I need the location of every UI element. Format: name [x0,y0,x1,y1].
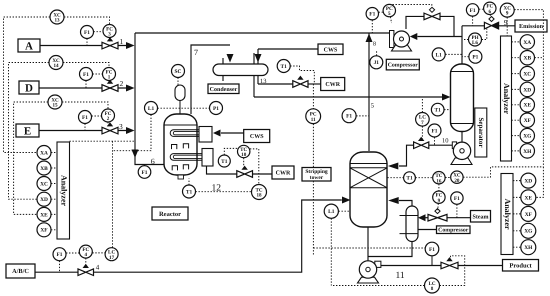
emission box [515,20,547,32]
signal LI PI reactor [158,107,210,109]
svg-text:6: 6 [489,9,492,15]
wire stripper bottoms [367,227,369,261]
separator vessel [451,64,474,132]
signal FI6 tap [144,165,146,166]
signal TI TC18 [196,191,252,193]
svg-text:1: 1 [108,75,111,81]
indicator PI reactor [210,102,223,115]
signal LC8 loop [440,256,465,286]
svg-text:CWR: CWR [325,82,340,88]
svg-text:P1: P1 [472,55,478,61]
signal analyzer stub XF [51,229,57,231]
signal LC17 link [312,248,314,255]
arrow into condenser [227,54,234,63]
analyzer tap XA [37,146,51,160]
svg-text:10: 10 [241,152,247,158]
signal TIcw TC10 [224,148,237,155]
signal FI4 tap [59,261,61,273]
product analyzer tap XG [521,223,536,238]
product analyzer tap XF [521,206,536,221]
indicator JI compressor [370,56,383,69]
valve condenser cw [293,76,308,88]
indicator FI stream5 [342,109,356,123]
svg-text:XD: XD [523,87,531,93]
svg-text:F1: F1 [429,247,435,253]
product analyzer tap XH [521,240,536,255]
wire reactor cwr [207,166,237,174]
svg-text:Analyzer: Analyzer [502,83,511,115]
indicator FI purge [466,4,478,16]
valve product [441,257,458,269]
valve compressor bypass [424,7,440,19]
controller XC9 [500,3,514,17]
controller LC7 [416,113,430,127]
steam heater vessel [400,206,419,242]
signal TIst TC16 [416,177,433,179]
wire heater label line [418,229,437,231]
svg-text:T1: T1 [435,108,442,114]
svg-text:XA: XA [40,150,48,156]
signal analyzer stub XE [51,213,57,215]
signal XC15 left loop [14,102,48,214]
wire feed header [135,33,164,165]
signal purge analyzer stub XA [512,41,521,43]
svg-text:Stripping: Stripping [305,169,328,175]
wire reactor cws [221,132,244,134]
analyzer tap XE [37,207,51,221]
svg-text:15: 15 [52,103,58,109]
svg-text:F1: F1 [142,170,148,176]
svg-text:L1: L1 [148,106,155,112]
signal XC13 to FC3 [64,17,110,25]
svg-text:CWS: CWS [324,47,338,53]
svg-text:D: D [25,82,33,94]
svg-text:7: 7 [421,120,424,126]
valve stream4 [78,264,94,276]
signal FI2 FC1 [93,73,103,75]
signal LI reactor down [113,115,152,151]
signal XB stub right [535,57,544,59]
controller TC16 [433,172,445,185]
svg-text:A/B/C: A/B/C [12,268,29,275]
wire recycle stream5 [135,32,390,34]
controller FC1 [103,68,116,81]
reactor baffle 4 [183,165,188,170]
svg-text:F1: F1 [454,196,460,202]
signal purge analyzer stub XH [512,150,521,152]
svg-text:F1: F1 [432,128,438,134]
svg-text:E: E [24,125,31,137]
signal tower label chain [312,181,314,248]
signal TIs stub [444,109,450,111]
svg-text:tower: tower [310,175,324,181]
svg-text:SC: SC [175,69,182,75]
signal product analyzer stub XG [513,230,521,232]
svg-text:XE: XE [40,212,48,218]
arrow stream10 stripper [388,163,399,170]
svg-text:J1: J1 [374,60,380,66]
svg-text:F1: F1 [82,115,88,121]
signal PC11 chain [312,84,314,109]
wire condenser tube left [222,58,224,81]
purge analyzer tap XE [520,98,534,112]
signal FI10 tap [434,137,436,145]
signal FIrec PC5 [379,11,383,13]
controller FC2 [102,109,115,122]
analyzer purge box [501,36,512,161]
wire heater outlet [368,242,412,257]
wire bypass [406,16,424,29]
indicator FI stream6 [138,166,151,179]
product box [503,260,539,272]
wire stream10 [429,144,453,146]
purge analyzer tap XG [520,128,534,142]
signal PC5 loop [393,5,432,7]
svg-text:4: 4 [96,264,100,272]
wire separator riser [461,26,463,64]
wire feed E line [39,130,127,132]
valve reactor cw [237,166,253,178]
signal XC14 to FC1 [63,63,109,68]
separator label [475,108,487,157]
indicator FI stream3 [79,111,92,124]
controller FC9 [433,191,445,204]
arrow feed D [126,85,135,92]
controller LC17 [105,248,118,261]
signal FIp FC6 [479,8,484,10]
indicator FI product [425,242,439,256]
svg-text:20: 20 [454,178,460,184]
signal FI1 tap [86,39,88,46]
svg-text:XA: XA [523,40,531,46]
signal TC10 valve [243,158,245,166]
indicator FI steam [451,192,463,204]
signal FIp tap [472,16,474,26]
controller XC20 [451,171,463,184]
cwr reactor box [272,166,294,179]
compressor [390,31,412,52]
valve purge solid wing [492,22,499,29]
indicator LI reactor [145,102,158,115]
signal analyzer stub XA [51,152,57,154]
signal analyzer sample line [70,140,136,142]
wire steam line2 [447,217,471,219]
stripping tower label [302,168,331,182]
controller LC8 [425,278,440,293]
product analyzer tap XD [521,173,536,188]
wire FIb tap [431,256,433,266]
signal TC10 TC18 [250,149,259,185]
valve purge stream9 [484,17,498,29]
signal JI compressor [376,51,378,56]
analyzer tap XC [37,177,51,191]
stripper product pump [358,261,381,283]
reactor baffle 2 [183,144,188,149]
separator pump [451,142,472,165]
controller FC3 [103,25,116,38]
svg-text:XG: XG [524,229,533,235]
signal LIs stub [445,53,462,55]
reactor vessel [164,114,197,175]
svg-text:CWS: CWS [250,134,264,140]
feed D box [19,81,39,94]
signal FI5 tap [356,115,369,117]
purge analyzer tap XB [520,51,534,65]
indicator TI reactor [183,185,196,198]
wire reactor vapor stream7 [191,45,230,114]
signal FC9 valve [437,204,440,211]
arrow riser up [366,34,373,43]
svg-text:Analyzer: Analyzer [503,198,512,230]
svg-text:XG: XG [523,134,532,140]
valve stream2 [102,80,118,92]
wire steam line [426,217,429,219]
wire condenser cws [258,48,318,50]
svg-text:3: 3 [108,32,111,38]
wire stream4 a [35,271,78,273]
svg-text:16: 16 [436,178,442,184]
svg-text:A: A [25,40,33,52]
svg-text:10: 10 [442,138,449,145]
svg-text:9: 9 [438,198,441,204]
svg-text:8: 8 [373,42,376,48]
svg-text:3: 3 [119,122,123,131]
cwr condenser box [321,78,345,91]
svg-text:9: 9 [506,11,509,17]
svg-text:13: 13 [54,18,60,24]
reactor dome seam [164,124,197,126]
controller PC11 [306,109,321,124]
arrow cws reactor [213,130,221,137]
indicator FI stream2 [80,68,93,81]
wire feed A line [40,45,127,47]
condenser label [208,84,239,94]
svg-text:F1: F1 [470,8,476,14]
steam box [471,211,491,223]
wire stream4 b [94,200,342,272]
arrow header down [132,150,139,159]
signal TI reactor tap [188,179,190,186]
svg-text:2: 2 [107,116,110,122]
indicator LI stripper [324,204,338,218]
arrow feed A [126,42,135,49]
indicator PI separator [469,50,482,63]
svg-text:T1: T1 [406,176,413,182]
svg-text:13: 13 [260,78,267,85]
wire compressor suction [418,36,463,38]
signal FIrec tap [371,20,373,33]
signal FC1 valve [108,81,110,84]
svg-text:XD: XD [524,179,532,185]
svg-text:XE: XE [524,103,532,109]
svg-text:F1: F1 [84,30,90,36]
wire separator outlet [461,132,463,143]
wire stream10b [399,145,414,166]
analyzer tap XB [37,161,51,175]
purge analyzer tap XF [520,113,534,127]
compressor label [386,59,419,70]
indicator FI stream1 [81,26,94,39]
valve steam [428,209,447,221]
reactor cw lower box [202,149,213,167]
signal XC9 loop right [514,10,543,167]
arrow into compressor [410,33,418,40]
svg-text:12: 12 [212,184,222,194]
analyzer feed box [57,142,70,239]
signal FIb link [313,247,425,249]
controller XC14 [49,56,63,70]
indicator SC reactor [172,65,185,78]
svg-text:XC: XC [523,72,531,78]
signal purge analyzer stub XC [512,73,521,75]
signal FC4 valve [85,258,87,264]
svg-text:F1: F1 [346,114,352,120]
svg-text:XB: XB [524,56,532,62]
valve stream1 [102,37,118,49]
svg-text:XD: XD [40,197,48,203]
svg-text:XH: XH [523,149,532,155]
svg-text:Compressor: Compressor [388,63,419,69]
purge analyzer tap XD [520,82,534,96]
svg-text:14: 14 [53,63,59,69]
svg-text:9: 9 [504,18,508,27]
purge analyzer tap XC [520,66,534,80]
signal loop to XE [536,167,544,198]
wire bypass2 [440,16,454,36]
svg-text:8: 8 [431,286,434,292]
signal TI condenser path [290,66,314,83]
signal XC15 to FC2 [62,102,108,109]
signal LIst down [330,218,332,285]
svg-text:P1: P1 [213,106,219,112]
controller PC5 [383,4,395,17]
controller FC4 [79,245,92,258]
signal analyzer to LC17 [112,141,114,247]
reactor baffle 1 [172,145,177,150]
signal XC14 left loop [9,63,50,200]
signal FC6 valve [490,15,492,16]
signal PC5 comp [391,17,392,23]
indicator TI condenser [277,60,290,73]
reactor cw upper box [199,127,212,143]
controller FC6 [484,2,496,15]
signal product analyzer stub XD [513,180,521,182]
controller XC13 [50,10,64,24]
product analyzer tap XE [521,190,536,205]
svg-text:XF: XF [40,228,48,234]
cws reactor box [244,130,270,143]
wire condenser cwr2 [308,83,321,85]
reactor coil lower [170,154,202,161]
svg-text:5: 5 [388,11,391,17]
controller TC10 [238,145,250,158]
svg-text:1: 1 [120,37,124,46]
svg-text:CWR: CWR [276,171,291,177]
svg-text:6: 6 [151,157,155,166]
wire product line2 [458,265,503,267]
wire stripper overhead riser [368,33,370,151]
feed ABC box [6,264,35,278]
svg-text:L6: L6 [472,40,478,46]
svg-text:F1: F1 [57,252,63,258]
signal LC8 left [331,285,424,287]
analyzer tap XD [37,192,51,206]
wire stream13 to separator [254,96,443,98]
signal PHL6 valve [482,29,487,40]
cws condenser box [318,44,343,55]
arrow heater vapor [388,197,399,204]
signal PC11 chain2 [312,124,314,168]
svg-text:Steam: Steam [473,214,489,220]
signal product analyzer stub XE [513,196,521,198]
signal FI2 tap [85,81,87,89]
valve stream10 [414,137,429,149]
arrow into separator [442,94,451,101]
svg-text:XF: XF [524,118,532,124]
indicator LI separator [432,48,445,61]
svg-text:XC: XC [40,181,48,187]
signal PIs stub [462,56,469,58]
signal FI3 tap [84,124,86,131]
svg-text:Reactor: Reactor [159,211,181,218]
signal FC3 valve [109,38,111,42]
signal XC9 analyzer [506,17,508,36]
svg-text:L1: L1 [436,52,443,58]
reactor agitator motor [175,85,185,114]
signal PHL6 riser [462,39,468,41]
stripper vessel [350,152,387,227]
wire condenser cw tube [257,49,259,84]
indicator FI stream10 [428,124,441,137]
signal LIst stub [339,210,351,212]
indicator PH L6 separator [469,33,482,46]
svg-text:4: 4 [85,252,88,258]
reactor label [152,207,188,220]
svg-text:Product: Product [509,263,532,270]
signal product analyzer stub XF [513,213,521,215]
svg-text:XF: XF [525,212,533,218]
svg-text:Separator: Separator [477,118,485,148]
svg-text:18: 18 [256,193,262,199]
arrow feed E [126,127,135,134]
svg-text:7: 7 [194,48,198,57]
svg-text:L1: L1 [328,209,335,215]
analyzer product box [501,174,513,255]
signal LC7 valve [421,126,423,139]
wire purge line [462,25,484,27]
svg-text:5: 5 [371,103,374,110]
wire heater vapor [399,201,412,207]
signal analyzer stub XD [51,198,57,200]
indicator FI stream4 [53,248,66,261]
svg-text:XB: XB [40,166,48,172]
svg-text:F1: F1 [369,12,375,18]
heater compressor label [437,226,471,234]
wire reactor cwr2 [253,173,273,175]
svg-text:F1: F1 [83,72,89,78]
svg-text:Condenser: Condenser [210,86,238,93]
svg-text:Compressor: Compressor [438,228,469,234]
signal XC20 loop [463,167,543,177]
signal FIsteam tap [456,204,458,217]
signal TC16 XC20 [445,177,450,179]
svg-text:2: 2 [120,79,124,88]
wire purge line2 [499,25,515,27]
arrow cws into condenser [255,54,262,63]
svg-text:11: 11 [396,271,405,281]
svg-text:11: 11 [311,117,316,123]
signal FC4 LC17 [92,252,105,254]
